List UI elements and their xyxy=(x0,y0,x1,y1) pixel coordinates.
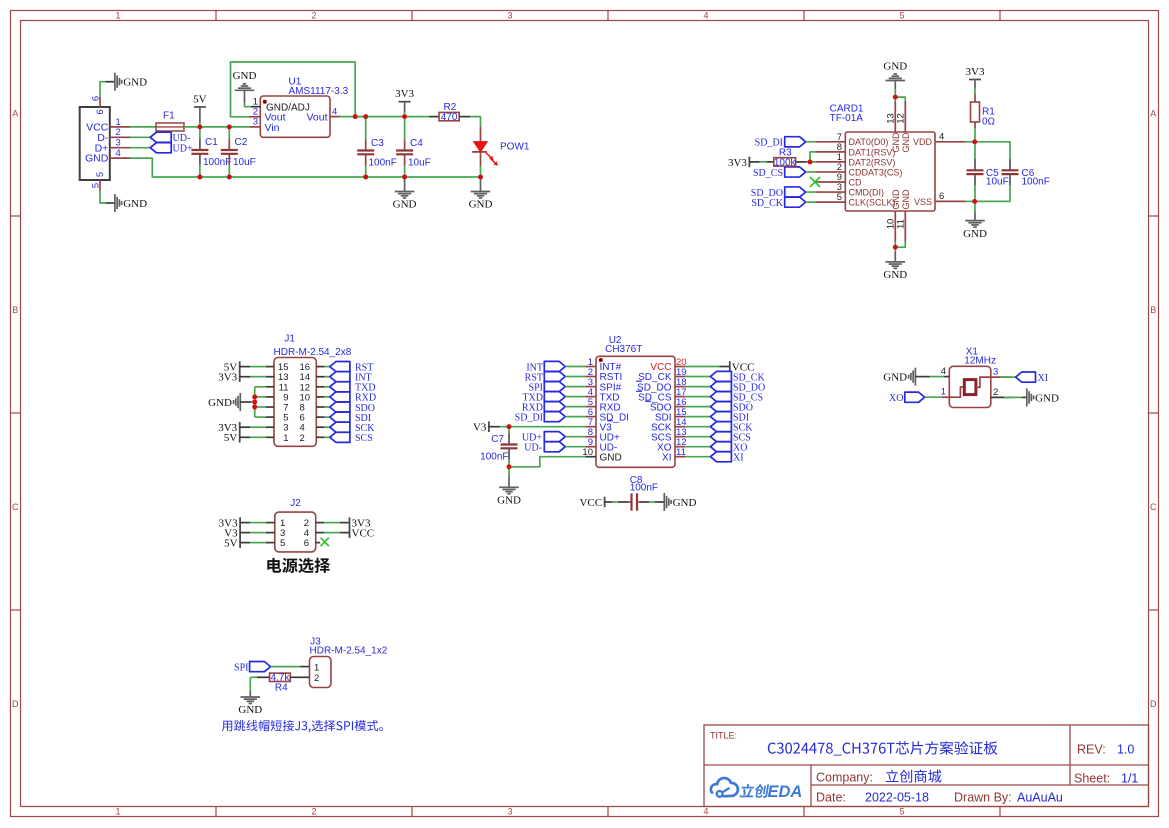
capacitor C7 xyxy=(480,427,517,467)
wire C6 bottom to VSS node xyxy=(975,192,1010,201)
wire pins 13/12 to GND xyxy=(895,81,905,102)
wire 5V to J2 xyxy=(240,542,275,544)
svg-text:2: 2 xyxy=(311,807,316,817)
svg-text:CD: CD xyxy=(849,177,862,187)
power flag 3V3 (J1 pin 3) xyxy=(218,422,239,434)
svg-text:GND: GND xyxy=(123,77,147,89)
svg-text:TITLE:: TITLE: xyxy=(710,731,737,741)
svg-text:GND: GND xyxy=(469,199,493,211)
svg-text:GND: GND xyxy=(497,495,521,507)
svg-text:3: 3 xyxy=(507,807,512,817)
svg-text:0Ω: 0Ω xyxy=(982,117,996,128)
net flag SCS (U2) xyxy=(685,432,751,444)
svg-text:5: 5 xyxy=(899,807,904,817)
power flag V3 (U2 pin7) xyxy=(473,421,500,433)
power flag 3V3 (R1) xyxy=(966,66,985,94)
no-connect X on J2 pin6 xyxy=(316,538,329,546)
svg-text:GND: GND xyxy=(891,189,901,210)
wire pin5 to GND flag xyxy=(100,190,115,203)
svg-text:D: D xyxy=(12,699,19,709)
resistor R1 0R xyxy=(971,94,996,128)
net flag XI (U2) xyxy=(685,452,744,464)
power flag 3V3 xyxy=(395,88,414,116)
U2 pin 3 stub xyxy=(585,377,596,388)
wire ground rail under C1-C4 xyxy=(200,176,481,178)
ground flag (J1) xyxy=(208,393,240,411)
svg-text:B: B xyxy=(12,305,18,315)
capacitor C8 xyxy=(605,475,665,511)
USB pin 5 (shield bottom) xyxy=(91,172,107,191)
svg-text:J2: J2 xyxy=(290,498,301,509)
wire J2 pin4 to VCC xyxy=(316,532,350,534)
junction VSS node xyxy=(972,199,977,204)
svg-text:POW1: POW1 xyxy=(500,141,530,152)
svg-text:XI: XI xyxy=(662,452,671,463)
svg-text:XO: XO xyxy=(889,393,903,404)
power flag 3V3 (J1 pin 13) xyxy=(218,371,239,383)
svg-text:6: 6 xyxy=(304,538,309,549)
svg-text:Sheet:: Sheet: xyxy=(1074,771,1110,785)
svg-text:5: 5 xyxy=(91,183,102,188)
ground flag under C4 xyxy=(393,177,417,211)
wire pins 10/11 to GND xyxy=(895,242,905,262)
ground flag (USB top) xyxy=(115,73,147,91)
net flag SPI (U2) xyxy=(529,382,586,394)
svg-text:A: A xyxy=(1150,109,1156,119)
svg-text:6: 6 xyxy=(95,109,106,114)
wire SD_DO to pin3 row xyxy=(806,191,816,193)
svg-text:SD_DI: SD_DI xyxy=(515,412,543,423)
EasyEDA logo xyxy=(711,778,802,801)
wire 5V to J1 pin 15 xyxy=(240,366,274,368)
svg-text:1: 1 xyxy=(941,387,946,398)
wire J1 ground bus xyxy=(240,387,274,417)
svg-text:10uF: 10uF xyxy=(408,158,431,169)
junction at 5V/C1 xyxy=(198,125,203,130)
svg-text:5V: 5V xyxy=(193,94,207,106)
svg-text:GND: GND xyxy=(123,198,147,210)
U2 pin 1 stub xyxy=(585,357,596,368)
svg-text:100nF: 100nF xyxy=(203,157,231,168)
svg-text:5V: 5V xyxy=(224,432,238,444)
svg-text:10uF: 10uF xyxy=(986,177,1009,188)
svg-text:DAT0(D0): DAT0(D0) xyxy=(849,137,889,147)
USB pin 4 (GND) xyxy=(110,148,130,159)
X1 pin 3 stub xyxy=(991,367,1011,378)
svg-text:SD_CK: SD_CK xyxy=(751,198,783,209)
net flag TXD (J1) xyxy=(316,382,375,394)
junction at C2 xyxy=(227,125,232,130)
svg-text:VSS: VSS xyxy=(914,197,932,207)
svg-text:GND: GND xyxy=(238,704,262,716)
U2 pin 17 stub xyxy=(675,387,687,398)
capacitor C2 xyxy=(221,127,256,177)
svg-text:CH376T: CH376T xyxy=(605,344,642,355)
USB pin 6 (shield top) xyxy=(91,96,107,115)
svg-text:100nF: 100nF xyxy=(630,483,658,494)
CARD1 pin 9 stub xyxy=(815,172,845,183)
svg-text:C2: C2 xyxy=(235,137,248,148)
svg-text:Drawn By:: Drawn By: xyxy=(954,791,1012,805)
svg-text:A: A xyxy=(12,109,18,119)
IC U2 CH376T xyxy=(596,335,675,467)
svg-text:TF-01A: TF-01A xyxy=(830,113,864,124)
net flag SD_DO (card) xyxy=(751,187,806,199)
wire R3 to pin1 xyxy=(807,161,816,163)
U1 pin 3 stub xyxy=(250,117,261,128)
wire 3V3 to J2 xyxy=(240,522,275,524)
CARD1 pin 7 stub xyxy=(815,132,845,143)
junction rail C3 xyxy=(363,175,368,180)
header J1 HDR-M-2.54_2x8 xyxy=(274,333,352,446)
CARD1 pin 2 stub xyxy=(815,162,845,173)
capacitor C6 xyxy=(1002,152,1050,192)
svg-text:C: C xyxy=(1150,502,1157,512)
wire V3 to U2 pin7 xyxy=(500,426,585,428)
wire VSS pin to node xyxy=(965,200,975,202)
U2 pin 14 stub xyxy=(675,417,687,428)
U2 pin 18 stub xyxy=(675,377,687,388)
svg-text:UD-: UD- xyxy=(173,133,191,144)
net flag SPI xyxy=(234,662,271,674)
net flag RST (J1) xyxy=(316,362,373,374)
svg-text:CLK(SCLK): CLK(SCLK) xyxy=(849,198,896,208)
header J2 xyxy=(275,498,316,552)
svg-text:12MHz: 12MHz xyxy=(964,356,996,367)
ground flag above CARD1 xyxy=(883,60,907,80)
svg-text:F1: F1 xyxy=(163,111,175,122)
svg-text:GND: GND xyxy=(673,497,697,509)
wire pin6 to GND flag xyxy=(100,82,115,97)
svg-text:SCS: SCS xyxy=(355,433,373,444)
Company field xyxy=(816,769,941,784)
svg-text:AMS1117-3.3: AMS1117-3.3 xyxy=(289,86,349,97)
svg-text:1: 1 xyxy=(115,11,120,21)
svg-text:Vin: Vin xyxy=(265,122,280,134)
svg-text:12: 12 xyxy=(896,113,907,124)
svg-text:6: 6 xyxy=(939,191,944,202)
wire VCC: USB pin1 to fuse F1 xyxy=(130,126,156,128)
junction rail LED xyxy=(478,175,483,180)
Date field xyxy=(816,791,1063,805)
wire LED cathode to rail xyxy=(480,166,482,177)
svg-text:C7: C7 xyxy=(491,434,504,445)
wire U1 pin2 feedback loop xyxy=(231,62,356,117)
svg-text:Company:: Company: xyxy=(816,771,873,785)
net flag SCS (J1) xyxy=(316,432,372,444)
svg-text:11: 11 xyxy=(676,447,686,458)
power flag 5V (J2 left) xyxy=(224,537,240,549)
svg-text:3: 3 xyxy=(253,117,258,128)
wire SD_CK to pin5 xyxy=(806,201,816,203)
svg-text:GND: GND xyxy=(883,60,907,72)
wire U1 pin1 to ground xyxy=(245,103,252,107)
U2 pin 9 stub xyxy=(585,437,596,448)
junction J1 gnd pin7 xyxy=(252,405,257,410)
U2 pin 2 stub xyxy=(585,367,596,378)
svg-text:REV:: REV: xyxy=(1077,743,1106,757)
svg-text:SPI: SPI xyxy=(234,662,248,673)
svg-text:3: 3 xyxy=(507,11,512,21)
svg-text:1: 1 xyxy=(116,117,121,128)
USB connector body xyxy=(80,107,110,180)
svg-text:11: 11 xyxy=(896,219,907,229)
U2 pin 4 stub xyxy=(585,387,596,398)
svg-text:DAT2(RSV): DAT2(RSV) xyxy=(849,157,896,167)
power flag VCC (C8) xyxy=(579,497,604,509)
svg-text:100nF: 100nF xyxy=(1022,177,1050,188)
net flag SD_CS (U2) xyxy=(685,392,763,404)
wire J2 pin2 to 3V3 xyxy=(316,522,350,524)
svg-text:EDA: EDA xyxy=(768,783,803,801)
svg-text:R3: R3 xyxy=(779,147,792,158)
X1 pin 1 number xyxy=(941,387,946,398)
svg-text:GND: GND xyxy=(883,372,907,384)
wire SD_CS to pin2 xyxy=(806,171,816,173)
svg-text:3V3: 3V3 xyxy=(966,66,985,78)
ground flag under C7 xyxy=(497,467,521,507)
CARD1 pin 6 (VSS) stub xyxy=(935,191,965,202)
svg-text:5V: 5V xyxy=(224,538,238,550)
svg-text:100nF: 100nF xyxy=(369,158,397,169)
junction pins 10/11 xyxy=(893,245,898,250)
resistor R2 xyxy=(429,102,470,123)
junction loop/output xyxy=(353,114,358,119)
svg-text:C3: C3 xyxy=(371,138,384,149)
wire D- to UD- flag xyxy=(130,136,150,138)
svg-text:3: 3 xyxy=(116,138,121,149)
svg-text:4: 4 xyxy=(332,106,337,117)
svg-text:5: 5 xyxy=(837,192,842,203)
svg-text:D: D xyxy=(1150,699,1157,709)
wire V3 to J2 xyxy=(240,532,275,534)
svg-text:VDD: VDD xyxy=(913,137,933,147)
svg-text:4: 4 xyxy=(703,11,708,21)
wire XO to X1 pin1 xyxy=(925,396,950,398)
ground flag above U1 xyxy=(233,70,257,103)
junction J1 gnd flag xyxy=(252,400,257,405)
U2 pin 6 stub xyxy=(585,407,596,418)
junction C7 bottom xyxy=(507,464,512,469)
svg-text:2: 2 xyxy=(300,433,305,444)
svg-text:Vout: Vout xyxy=(306,112,327,124)
svg-text:VCC: VCC xyxy=(579,497,602,509)
svg-text:1.0: 1.0 xyxy=(1117,743,1134,757)
net flag UD+ (U2) xyxy=(522,432,585,444)
CARD1 pin 1 stub xyxy=(815,152,845,163)
net flag UD- xyxy=(150,132,190,144)
wire 3V3 to J1 pin 3 xyxy=(240,426,274,428)
svg-text:SD_CS: SD_CS xyxy=(753,168,783,179)
ground flag (X1 pin2) xyxy=(1027,388,1059,406)
svg-text:3V3: 3V3 xyxy=(728,157,747,169)
svg-text:5: 5 xyxy=(95,172,106,177)
net flag UD+ xyxy=(150,143,193,155)
svg-text:B: B xyxy=(1150,305,1156,315)
U2 pin 15 stub xyxy=(675,407,687,418)
wire C7 to U2 pin10 GND xyxy=(509,457,585,467)
U2 pin 13 stub xyxy=(675,427,687,438)
svg-text:4: 4 xyxy=(703,807,708,817)
junction pins 13/12 xyxy=(893,95,898,100)
net flag SD_CK (card) xyxy=(751,197,805,209)
svg-text:3V3: 3V3 xyxy=(218,372,237,384)
svg-text:HDR-M-2.54_2x8: HDR-M-2.54_2x8 xyxy=(274,347,352,358)
U2 pin 7 stub xyxy=(585,417,596,428)
CARD1 pin 13 stub xyxy=(886,102,897,133)
U2 pin 20 stub xyxy=(675,357,687,368)
svg-text:J1: J1 xyxy=(284,333,295,344)
U1 pin 2 stub xyxy=(249,107,260,118)
svg-text:HDR-M-2.54_1x2: HDR-M-2.54_1x2 xyxy=(310,646,388,657)
svg-text:GND: GND xyxy=(600,452,622,463)
power flag V3 (J2 left) xyxy=(224,527,240,539)
wire R1 to VDD node xyxy=(974,128,976,142)
SD card socket CARD1 xyxy=(830,104,935,211)
wire F1 to U1 Vin xyxy=(184,126,250,128)
X1 pin 4 number xyxy=(941,366,946,377)
net flag RXD (U2) xyxy=(522,402,585,414)
net flag SD_DO (U2) xyxy=(685,382,765,394)
junction C4/3V3 tap xyxy=(402,114,407,119)
svg-text:C1: C1 xyxy=(205,137,218,148)
junction V3/C7 xyxy=(507,424,512,429)
wire X1 pin3 to XI xyxy=(1001,376,1016,378)
net flag SD_DI (card) xyxy=(755,137,806,149)
net flag SDI (J1) xyxy=(316,412,371,424)
fuse F1 xyxy=(156,111,184,132)
svg-text:C: C xyxy=(12,502,19,512)
ground flag (X1 pin4) xyxy=(883,368,915,386)
capacitor C5 xyxy=(967,142,1009,202)
junction rail C4 xyxy=(402,175,407,180)
svg-text:5: 5 xyxy=(280,538,285,549)
power flag 3V3 (J2 right) xyxy=(350,517,371,529)
U1 pin 1 stub xyxy=(251,97,260,108)
svg-text:Date:: Date: xyxy=(816,791,846,805)
svg-text:1: 1 xyxy=(314,662,319,673)
U2 pin 5 stub xyxy=(585,397,596,408)
net flag XO xyxy=(889,392,925,404)
CARD1 pin 5 stub xyxy=(815,192,845,203)
USB pin 3 (D+) xyxy=(110,138,130,149)
svg-text:4: 4 xyxy=(941,366,946,377)
svg-text:GND: GND xyxy=(233,70,257,82)
svg-text:GND: GND xyxy=(963,228,987,240)
net flag XI xyxy=(1016,372,1048,384)
U2 pin 10 stub xyxy=(582,447,596,458)
wire SD_DI to pin7 xyxy=(806,141,816,143)
svg-text:DAT1(RSV): DAT1(RSV) xyxy=(849,147,896,157)
svg-text:2: 2 xyxy=(314,673,319,684)
junction C3 tap xyxy=(363,114,368,119)
svg-text:100k: 100k xyxy=(774,157,797,168)
junction dots overlay xyxy=(198,95,978,470)
svg-text:R4: R4 xyxy=(275,683,288,694)
net flag RXD (J1) xyxy=(316,392,376,404)
wire GND to X1 pin4 xyxy=(915,376,949,378)
power flag 5V (J1 pin 15) xyxy=(224,361,240,373)
svg-text:3: 3 xyxy=(993,367,998,378)
CARD1 pin 10 stub xyxy=(886,211,897,242)
svg-text:GND: GND xyxy=(883,269,907,281)
svg-text:GND: GND xyxy=(901,189,911,210)
net flag XO (U2) xyxy=(685,442,747,454)
net flag SD_CS (card) xyxy=(753,167,806,179)
wire VDD pin to node xyxy=(965,141,975,143)
regulator U1 AMS1117-3.3 xyxy=(260,77,348,138)
svg-text:GND: GND xyxy=(208,397,232,409)
svg-text:4: 4 xyxy=(116,148,121,159)
capacitor C1 xyxy=(191,127,231,177)
net flag SD_CK (U2) xyxy=(685,371,765,383)
svg-text:10uF: 10uF xyxy=(233,157,256,168)
CARD1 pin 8 stub xyxy=(815,142,845,153)
junction rail C1 xyxy=(198,175,203,180)
label power-select (dian yuan xuan ze) xyxy=(267,558,330,573)
ground flag (C8) xyxy=(664,493,696,511)
power flag 5V (J1 pin 1) xyxy=(224,432,240,444)
wire USB GND to ground rail xyxy=(130,158,200,177)
U2 pin 12 stub xyxy=(675,437,687,448)
wire R2 to LED xyxy=(470,117,481,127)
svg-text:3V3: 3V3 xyxy=(395,88,414,100)
svg-text:GND: GND xyxy=(891,132,901,153)
crystal X1 12MHz xyxy=(949,347,996,408)
svg-text:2: 2 xyxy=(311,11,316,21)
power flag 3V3 (J2 left) xyxy=(219,517,240,529)
wire 3V3 to J1 pin 13 xyxy=(240,376,274,378)
svg-text:XI: XI xyxy=(1038,373,1049,384)
USB pin 2 (D-) xyxy=(110,127,130,138)
svg-text:AuAuAu: AuAuAu xyxy=(1017,791,1063,805)
wire R3 to pin8 xyxy=(810,152,815,162)
net flag UD- (U2) xyxy=(524,442,585,454)
net flag SD_DI (U2) xyxy=(515,412,586,424)
net flag INT (J1) xyxy=(316,372,371,384)
net flag SCK (U2) xyxy=(685,422,753,434)
X1 pin 2 stub xyxy=(991,387,1011,398)
svg-text:UD-: UD- xyxy=(524,443,542,454)
resistor R4 xyxy=(257,673,310,694)
svg-text:1: 1 xyxy=(283,433,288,444)
wire X1 pin2 to GND xyxy=(1004,396,1027,398)
svg-text:XI: XI xyxy=(733,453,744,464)
REV field xyxy=(1077,743,1134,757)
svg-text:470: 470 xyxy=(441,112,458,123)
ground flag under LED xyxy=(469,177,493,211)
net flag TXD (U2) xyxy=(522,392,585,404)
junction J1 gnd pin9 xyxy=(252,395,257,400)
wire U1 output 3V3 xyxy=(340,116,429,118)
U2 pin 19 stub xyxy=(675,367,687,378)
title block xyxy=(704,725,1149,807)
wire R4 to GND xyxy=(250,677,257,697)
power flag VCC (U2) xyxy=(730,361,755,373)
LED POW1 xyxy=(472,127,530,166)
svg-text:CMD(DI): CMD(DI) xyxy=(849,187,885,197)
svg-text:GND: GND xyxy=(1035,392,1059,404)
CARD1 pin 12 stub xyxy=(896,102,907,133)
U2 pin 8 stub xyxy=(585,427,596,438)
wire U2 pin20 to VCC xyxy=(685,366,730,368)
ground flag (J3/R4) xyxy=(238,697,262,716)
svg-text:C4: C4 xyxy=(410,138,423,149)
ground flag under C5 xyxy=(963,201,987,239)
svg-text:100nF: 100nF xyxy=(480,451,508,462)
power flag 3V3 (R3) xyxy=(728,157,774,169)
CARD1 pin 3 stub xyxy=(815,182,845,193)
